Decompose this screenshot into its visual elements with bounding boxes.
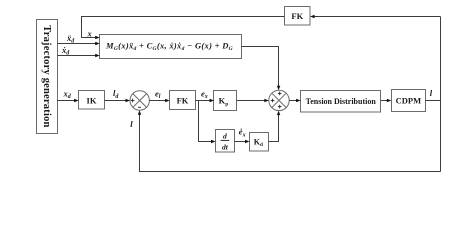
svg-text:l: l — [430, 88, 433, 98]
svg-text:FK: FK — [177, 95, 189, 105]
wire Kd output to S2 bottom — [269, 114, 279, 142]
wire S2 output to Tension Distribution — [289, 100, 297, 102]
arrowhead into top FK — [310, 15, 315, 18]
wire feedback into top FK — [313, 16, 440, 18]
dynamics equation block — [100, 35, 242, 59]
arrowhead into CDPM — [387, 99, 392, 102]
svg-text:ėx: ėx — [239, 127, 246, 139]
svg-text:l: l — [130, 119, 133, 129]
wire IK output l_d to S1 — [105, 100, 128, 102]
svg-text:xd: xd — [63, 88, 72, 100]
arrowhead into S2 top — [277, 86, 280, 91]
wire Kp output to S2 — [237, 100, 266, 102]
arrowhead into Kp — [210, 99, 215, 102]
arrowhead into S2 left — [264, 99, 269, 102]
arrowhead into dynamics (xdot_d) — [95, 54, 100, 57]
arrowhead into dynamics (x) — [95, 36, 100, 39]
arrowhead into dynamics (xddot_d) — [95, 42, 100, 45]
wire xdot_d : trajectory to dynamics — [58, 55, 97, 57]
FK block (middle) — [170, 91, 196, 110]
wire x_d : trajectory to IK — [58, 100, 76, 102]
svg-text:MG(x)ẍd + CG(x, ẋ)ẋd − G(x) +: MG(x)ẍd + CG(x, ẋ)ẋd − G(x) + DG — [105, 41, 233, 53]
wire feedback vertical — [440, 17, 442, 172]
wire FK output e_x to Kp — [195, 100, 211, 102]
svg-text:IK: IK — [87, 95, 97, 105]
wire d/dt output to Kd — [235, 141, 248, 143]
summing junction S2 — [269, 90, 289, 110]
summing junction S1 — [130, 91, 149, 110]
wire CDPM output to feedback node — [426, 100, 442, 102]
wire xddot_d : trajectory to dynamics — [58, 43, 97, 45]
svg-text:ẋd: ẋd — [61, 45, 70, 57]
wire top FK output to dynamics (x) — [82, 17, 285, 38]
arrowhead into Tension Distribution — [296, 99, 301, 102]
arrowhead into Kd — [245, 140, 250, 143]
Trajectory generation block — [37, 20, 58, 134]
svg-text:ld: ld — [113, 88, 119, 100]
svg-text:ex: ex — [201, 88, 208, 100]
arrowhead into S2 bottom — [277, 111, 280, 116]
svg-text:ẍd: ẍd — [66, 33, 75, 45]
svg-text:d: d — [223, 132, 227, 141]
FK block (top feedback) — [285, 7, 311, 26]
svg-text:FK: FK — [291, 11, 303, 21]
svg-text:Tension Distribution: Tension Distribution — [306, 97, 377, 106]
wire bottom feedback l to S1 — [140, 113, 441, 171]
IK block — [79, 91, 105, 110]
arrowhead into S1 bottom — [138, 110, 141, 115]
Kd block — [250, 133, 269, 152]
svg-text:dt: dt — [222, 142, 229, 151]
wire S1 output e_l to FK — [149, 100, 166, 102]
d/dt block — [216, 130, 235, 153]
arrowhead into IK — [74, 99, 79, 102]
wire Tension Distribution output to CDPM — [381, 100, 389, 102]
arrowhead into FK middle — [165, 99, 170, 102]
Tension Distribution block — [301, 91, 381, 113]
svg-text:CDPM: CDPM — [396, 96, 422, 106]
Kp block — [214, 91, 237, 111]
CDPM block — [392, 90, 426, 112]
wire dynamics output to S2 top — [242, 47, 279, 88]
svg-text:Trajectory generation: Trajectory generation — [41, 25, 52, 127]
svg-text:el: el — [155, 88, 161, 100]
arrowhead into S1 left — [126, 99, 131, 102]
svg-text:x: x — [87, 29, 93, 39]
wire e_x branch to d/dt — [199, 101, 213, 142]
arrowhead into d/dt — [211, 140, 216, 143]
